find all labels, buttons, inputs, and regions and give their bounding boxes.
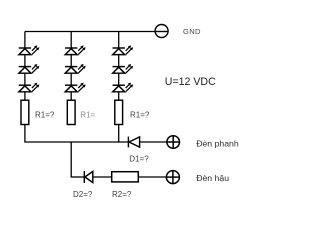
svg-text:D1=?: D1=?: [129, 155, 149, 164]
LED (string 1, bottom): [19, 83, 40, 92]
svg-text:U=12 VDC: U=12 VDC: [165, 76, 216, 88]
svg-text:R2=?: R2=?: [112, 190, 132, 199]
resistor R1 (string 1): [21, 100, 29, 124]
svg-text:Đèn phanh: Đèn phanh: [196, 139, 239, 149]
wire: top bus to LED string 3: [118, 32, 120, 49]
LED (string 3, middle): [113, 64, 134, 73]
resistor R2: [112, 172, 139, 182]
LED (string 2, top): [65, 45, 86, 54]
resistor R1 (string 3): [115, 100, 123, 124]
wire: corner to diode D2: [71, 176, 85, 178]
wire: LED string 2 segment 2-3: [70, 73, 72, 85]
LED (string 3, bottom): [113, 83, 134, 92]
resistor R1 (string 2): [67, 100, 75, 124]
wire: LED string 2 segment 1-2: [70, 55, 72, 67]
wire: top bus to LED string 1: [24, 32, 26, 49]
wire: bottom bus down to D2 branch: [70, 142, 72, 177]
wire: LED string 1 to resistor R1: [24, 92, 26, 100]
svg-text:GND: GND: [183, 27, 201, 36]
wire: LED string 3 to resistor R1: [118, 92, 120, 100]
wire: LED string 1 segment 1-2: [24, 55, 26, 67]
wire: top bus to LED string 2: [70, 32, 72, 49]
wire: resistor R1 (string 3) to bottom bus: [118, 125, 120, 143]
wire: R2 to tail-light terminal: [138, 176, 167, 178]
diode D1: [128, 137, 139, 148]
LED (string 2, bottom): [65, 83, 86, 92]
svg-text:D2=?: D2=?: [73, 190, 93, 199]
LED (string 2, middle): [65, 64, 86, 73]
wire: LED string 3 segment 1-2: [118, 55, 120, 67]
GND terminal (battery negative): [155, 25, 168, 38]
wire: LED string 3 segment 2-3: [118, 73, 120, 85]
LED (string 3, top): [113, 45, 134, 54]
wire: top bus (GND net): [25, 31, 156, 33]
svg-text:R1=: R1=: [80, 111, 95, 120]
terminal + (Den phanh / brake light): [167, 136, 180, 149]
svg-text:Đèn hậu: Đèn hậu: [196, 173, 229, 183]
LED (string 1, middle): [19, 64, 40, 73]
diode D2: [84, 171, 93, 183]
wire: D2 to resistor R2: [93, 176, 112, 178]
svg-text:R1=?: R1=?: [130, 111, 150, 120]
wire: resistor R1 (string 1) to bottom bus: [24, 125, 26, 143]
svg-text:R1=?: R1=?: [35, 111, 55, 120]
wire: LED string 2 to resistor R1: [70, 92, 72, 100]
wire: bottom bus (anode net): [25, 141, 128, 143]
LED (string 1, top): [19, 45, 40, 54]
wire: D1 to brake-light terminal: [140, 141, 168, 143]
terminal + (Den hau / tail light): [166, 171, 179, 184]
wire: LED string 1 segment 2-3: [24, 73, 26, 85]
